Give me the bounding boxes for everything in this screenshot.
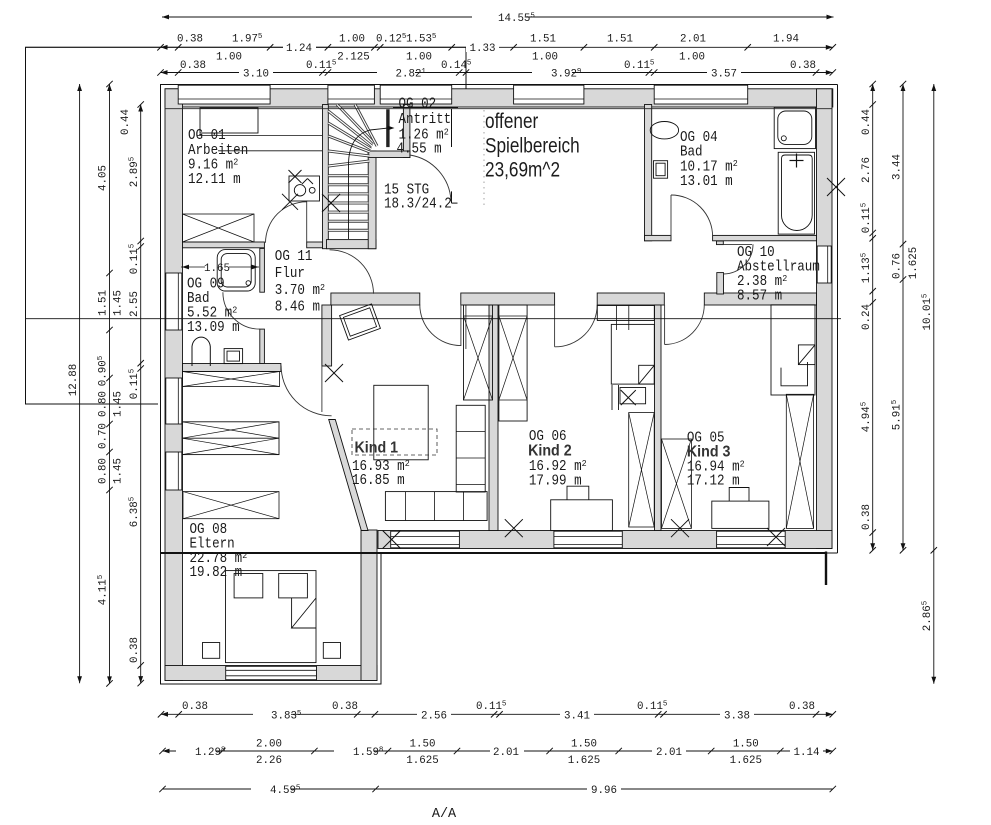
svg-text:0.38: 0.38 [129, 637, 141, 663]
svg-text:1.00: 1.00 [216, 52, 242, 64]
svg-text:1.24: 1.24 [286, 43, 312, 55]
svg-text:1.45: 1.45 [113, 290, 125, 316]
svg-text:5.52 m2: 5.52 m2 [187, 305, 237, 322]
svg-text:1.45: 1.45 [113, 458, 125, 484]
svg-text:0.70: 0.70 [98, 423, 110, 449]
svg-text:12.11 m: 12.11 m [188, 172, 241, 188]
svg-text:13.09 m: 13.09 m [187, 320, 240, 336]
svg-text:14.555: 14.555 [498, 13, 535, 26]
svg-text:9.16 m2: 9.16 m2 [188, 157, 238, 174]
svg-text:12.88: 12.88 [68, 364, 80, 396]
svg-text:3.41: 3.41 [564, 710, 590, 722]
svg-text:8.46 m: 8.46 m [275, 300, 320, 316]
svg-text:16.85 m: 16.85 m [352, 473, 405, 489]
svg-text:1.625: 1.625 [406, 755, 438, 767]
svg-text:2.01: 2.01 [493, 747, 519, 759]
svg-text:2.76: 2.76 [861, 157, 873, 183]
svg-text:Kind 3: Kind 3 [687, 444, 731, 461]
svg-text:1.00: 1.00 [532, 52, 558, 64]
svg-text:2.56: 2.56 [421, 710, 447, 722]
svg-text:10.015: 10.015 [922, 293, 935, 330]
svg-text:offener: offener [485, 111, 539, 134]
svg-text:16.92 m2: 16.92 m2 [529, 458, 587, 475]
svg-text:OG 04: OG 04 [680, 130, 718, 146]
svg-text:1.298: 1.298 [195, 747, 225, 760]
svg-text:2.38 m2: 2.38 m2 [737, 273, 787, 290]
svg-text:17.99 m: 17.99 m [529, 474, 582, 490]
svg-text:1.625: 1.625 [568, 755, 600, 767]
svg-text:Flur: Flur [275, 266, 305, 282]
svg-text:4.05: 4.05 [98, 165, 110, 191]
svg-text:1.625: 1.625 [908, 247, 920, 279]
svg-text:1.50: 1.50 [571, 739, 597, 751]
svg-text:A/A: A/A [432, 807, 457, 822]
svg-text:1.65: 1.65 [204, 263, 230, 275]
svg-text:OG 01: OG 01 [188, 128, 226, 144]
svg-text:3.44: 3.44 [892, 154, 904, 180]
svg-text:2.01: 2.01 [680, 34, 706, 46]
svg-text:18.3/24.2: 18.3/24.2 [384, 197, 452, 213]
svg-text:Spielbereich: Spielbereich [485, 135, 580, 158]
svg-text:1.50: 1.50 [410, 739, 436, 751]
svg-text:0.80: 0.80 [98, 458, 110, 484]
svg-text:1.14: 1.14 [794, 747, 820, 759]
svg-text:0.44: 0.44 [861, 109, 873, 135]
svg-text:1.33: 1.33 [470, 43, 496, 55]
svg-text:Kind 2: Kind 2 [528, 443, 572, 460]
svg-text:8.57 m: 8.57 m [737, 289, 782, 305]
svg-text:1.00: 1.00 [406, 52, 432, 64]
svg-text:1.45: 1.45 [113, 391, 125, 417]
svg-text:0.38: 0.38 [790, 60, 816, 72]
svg-text:1.00: 1.00 [339, 34, 365, 46]
svg-text:23,69m^2: 23,69m^2 [485, 159, 560, 182]
svg-text:3.929: 3.929 [551, 68, 581, 81]
svg-text:1.50: 1.50 [733, 739, 759, 751]
svg-text:0.38: 0.38 [789, 701, 815, 713]
svg-text:3.38: 3.38 [724, 710, 750, 722]
svg-text:9.96: 9.96 [591, 785, 617, 797]
svg-text:3.57: 3.57 [711, 69, 737, 81]
svg-text:1.625: 1.625 [730, 755, 762, 767]
svg-text:OG 11: OG 11 [275, 249, 313, 265]
svg-text:Kind 1: Kind 1 [355, 440, 399, 457]
svg-text:1.00: 1.00 [679, 52, 705, 64]
svg-text:0.80: 0.80 [98, 391, 110, 417]
svg-text:1.94: 1.94 [773, 34, 799, 46]
svg-text:2.01: 2.01 [656, 747, 682, 759]
svg-text:1.51: 1.51 [530, 34, 556, 46]
svg-text:2.125: 2.125 [337, 52, 369, 64]
svg-text:1.51: 1.51 [607, 34, 633, 46]
svg-text:0.24: 0.24 [861, 304, 873, 330]
svg-text:2.55: 2.55 [129, 291, 141, 317]
svg-text:0.76: 0.76 [892, 253, 904, 279]
svg-text:0.38: 0.38 [182, 701, 208, 713]
svg-text:0.38: 0.38 [180, 60, 206, 72]
svg-text:2.26: 2.26 [256, 755, 282, 767]
svg-text:3.70 m2: 3.70 m2 [275, 282, 325, 299]
svg-text:Bad: Bad [680, 145, 703, 161]
svg-text:1.598: 1.598 [353, 747, 383, 760]
svg-text:3.10: 3.10 [243, 69, 269, 81]
svg-text:1.51: 1.51 [98, 290, 110, 316]
svg-text:OG 02: OG 02 [399, 97, 437, 113]
svg-text:0.44: 0.44 [120, 109, 132, 135]
svg-text:13.01 m: 13.01 m [680, 174, 733, 190]
svg-text:4.55 m: 4.55 m [397, 142, 442, 158]
svg-text:17.12 m: 17.12 m [687, 474, 740, 490]
svg-text:2.00: 2.00 [256, 739, 282, 751]
svg-text:19.82 m: 19.82 m [190, 565, 243, 581]
svg-text:10.17 m2: 10.17 m2 [680, 159, 738, 176]
svg-text:0.38: 0.38 [332, 701, 358, 713]
svg-text:0.38: 0.38 [177, 34, 203, 46]
svg-text:0.38: 0.38 [861, 504, 873, 530]
